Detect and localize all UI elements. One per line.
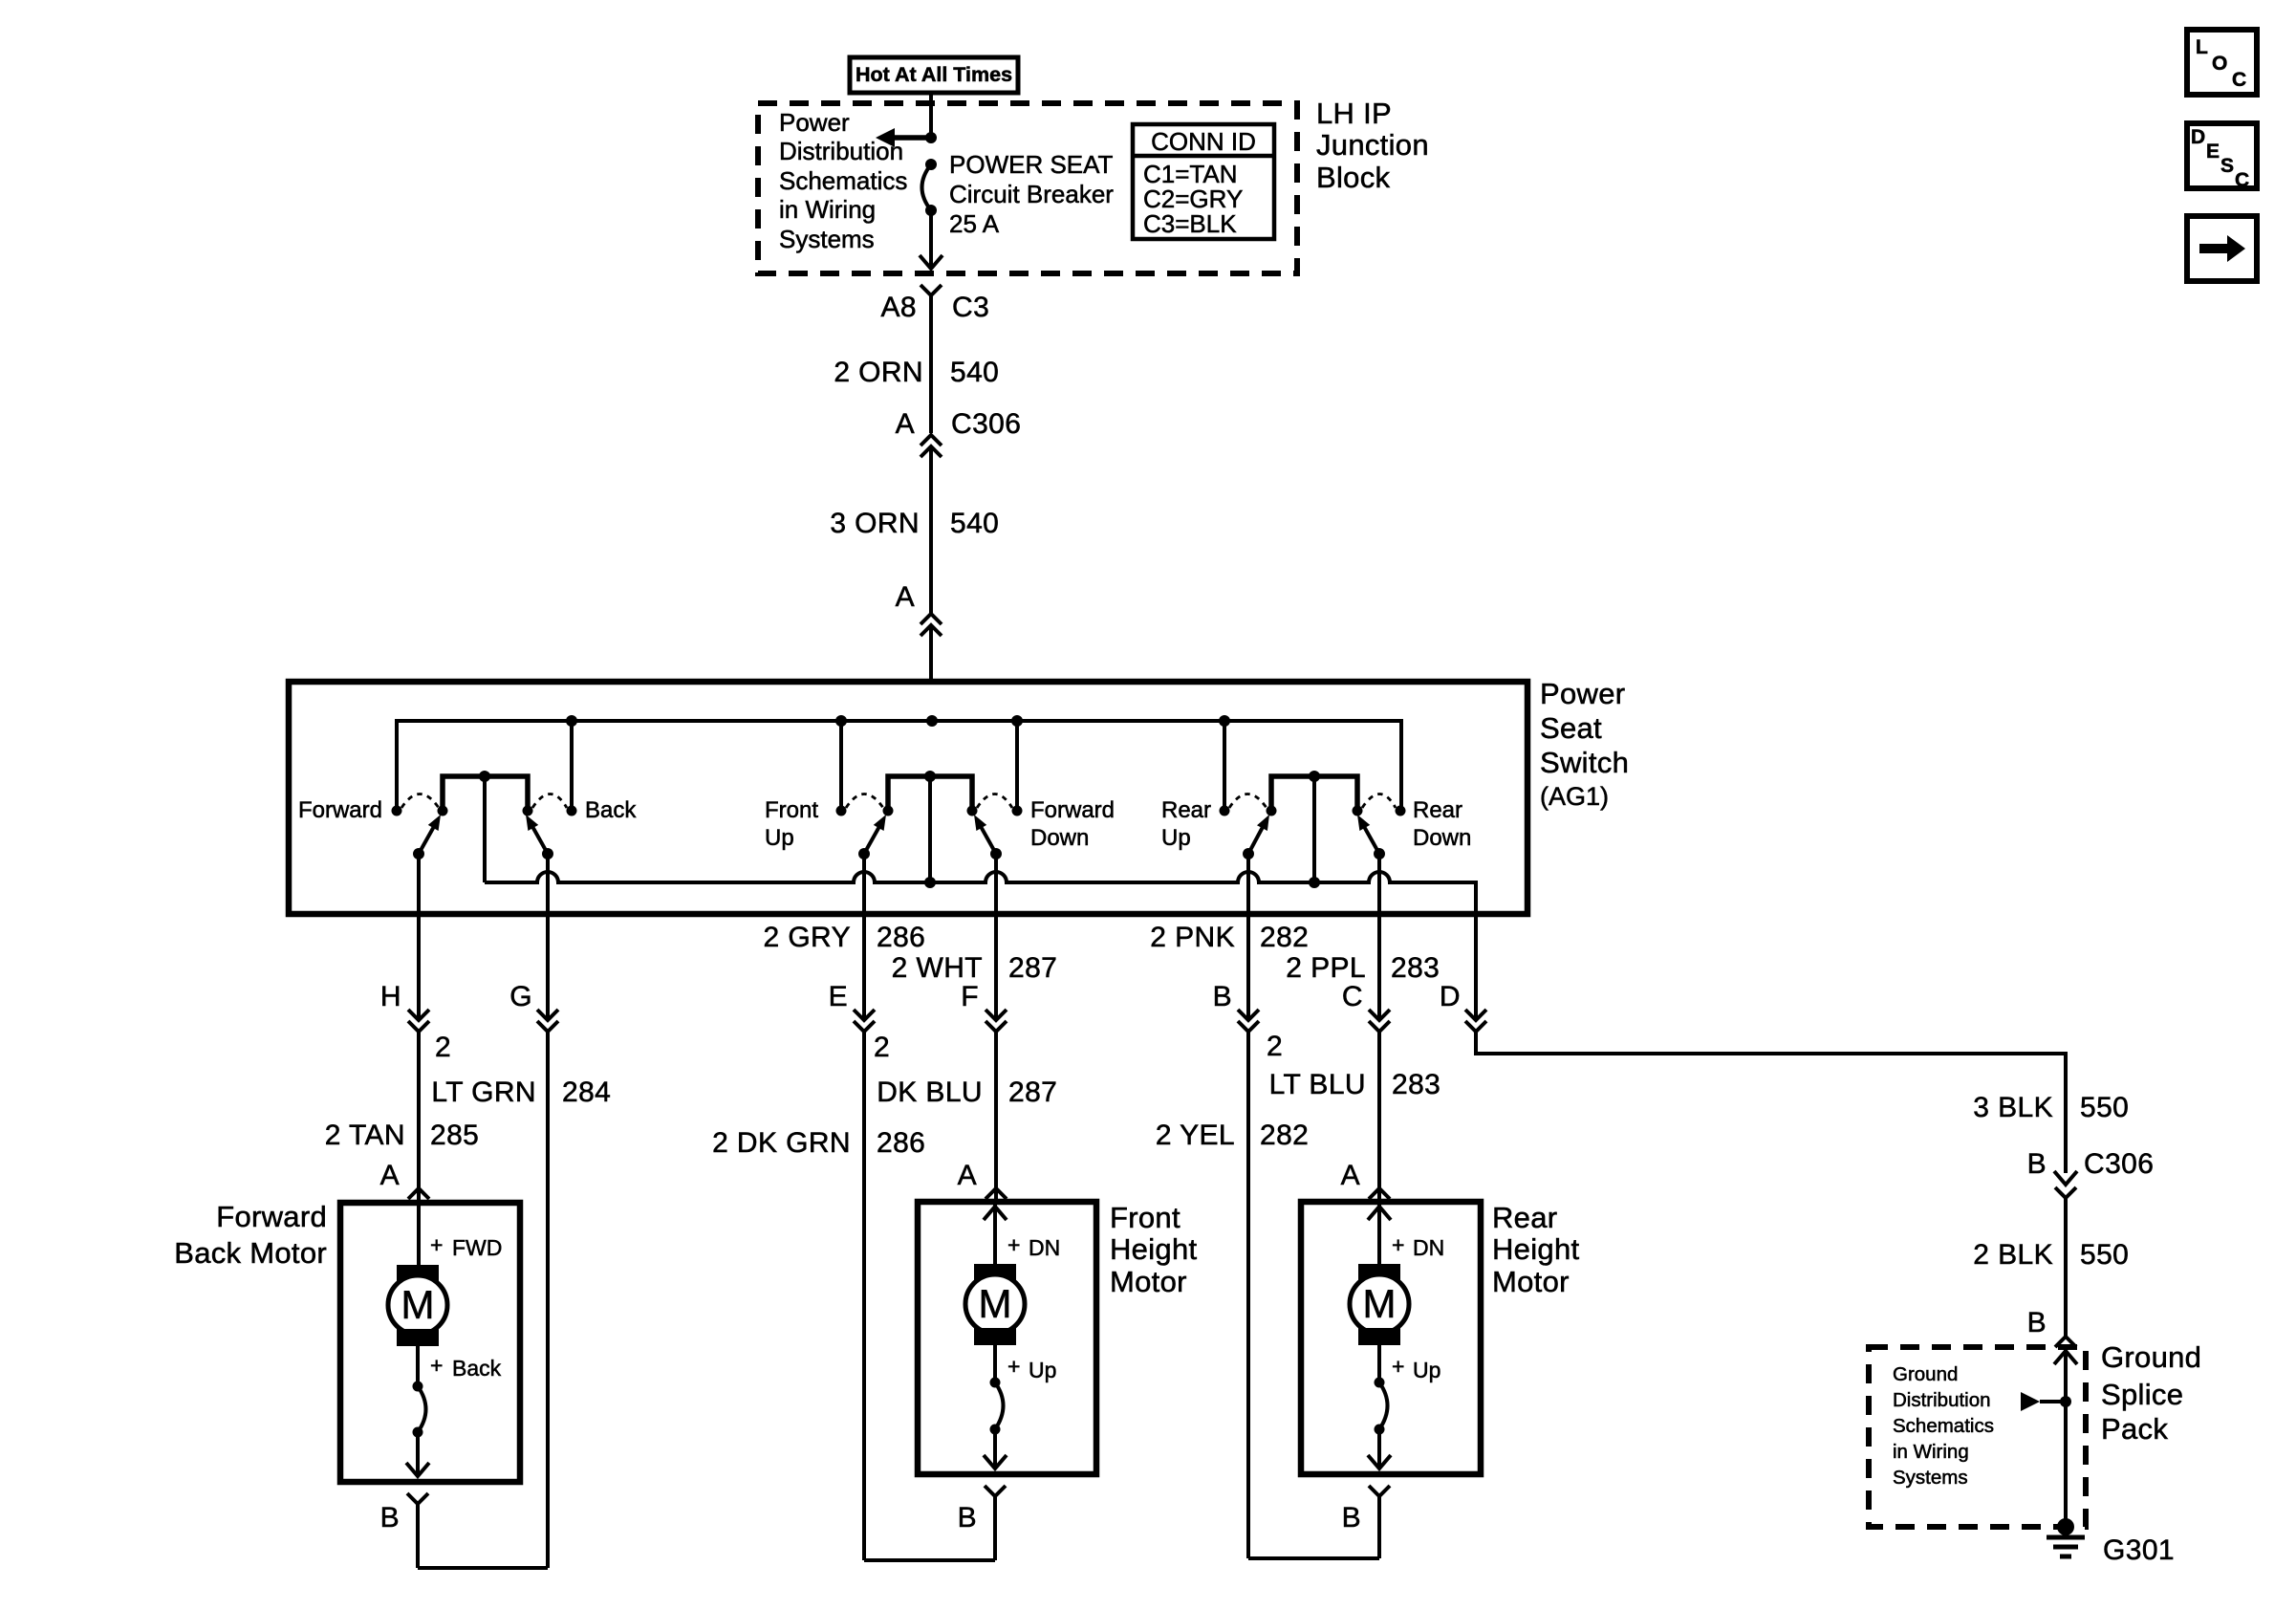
svg-text:3 BLK: 3 BLK	[1973, 1092, 2053, 1123]
svg-text:286: 286	[877, 922, 925, 953]
svg-text:2 YEL: 2 YEL	[1156, 1120, 1235, 1151]
label 2 DK BLU 287	[874, 1032, 1057, 1108]
wire F to Front Height Motor pin A	[994, 1032, 998, 1202]
wire 2 ORN 540	[929, 325, 933, 433]
contact dots group 3	[1220, 806, 1406, 816]
svg-text:D: D	[1440, 981, 1461, 1012]
svg-text:2: 2	[435, 1032, 451, 1063]
wire G down right side of motor	[546, 1032, 550, 1568]
svg-text:285: 285	[430, 1120, 479, 1151]
wire inside splice pack with up arrow	[2054, 1347, 2077, 1527]
svg-text:550: 550	[2080, 1092, 2129, 1123]
corner legend box DESC	[2187, 123, 2257, 191]
wire E down	[862, 1032, 866, 1560]
svg-text:E: E	[829, 981, 848, 1012]
switch group 2 Front Up/Forward Down T-bar	[888, 771, 972, 882]
svg-text:A: A	[380, 1160, 400, 1191]
svg-text:2 GRY: 2 GRY	[764, 922, 852, 953]
label 3 BLK 550	[1973, 1092, 2129, 1123]
label Rear Down	[1413, 797, 1471, 851]
svg-text:Hot At All Times: Hot At All Times	[856, 63, 1012, 86]
label 2 GRY 286	[764, 922, 926, 953]
dashed rocker arcs group 1	[401, 794, 439, 809]
svg-text:Up: Up	[1029, 1358, 1056, 1382]
svg-text:Systems: Systems	[1893, 1467, 1968, 1489]
label 2 PPL 283	[1286, 952, 1440, 984]
svg-text:C306: C306	[951, 408, 1021, 440]
svg-text:Height: Height	[1110, 1232, 1197, 1266]
svg-text:2: 2	[874, 1032, 890, 1063]
wire H to Forward Back Motor pin A	[417, 1032, 421, 1203]
connector caret at ground splice pack	[2055, 1337, 2076, 1347]
actuator arrow Back	[526, 815, 553, 859]
svg-text:+: +	[1392, 1354, 1404, 1379]
label 2 WHT 287	[892, 952, 1058, 984]
svg-text:2 ORN: 2 ORN	[834, 357, 923, 388]
connector C306 pin B (down arrow + chevron)	[2027, 1148, 2155, 1198]
svg-text:O: O	[2212, 53, 2227, 75]
motor M1 Forward Back Motor	[340, 1203, 520, 1482]
label Front Height Motor	[1110, 1201, 1197, 1298]
svg-text:2 PNK: 2 PNK	[1150, 922, 1235, 953]
wire motor1 B to G	[418, 1566, 548, 1570]
note Ground Distribution Schematics in Wiring Systems	[1893, 1363, 1994, 1489]
wire switch pin E	[862, 854, 866, 914]
svg-text:(AG1): (AG1)	[1540, 782, 1609, 811]
wire 2 BLK 550	[2064, 1198, 2068, 1337]
svg-text:Forward: Forward	[216, 1200, 327, 1233]
svg-text:B: B	[380, 1502, 400, 1534]
motor M3 Rear Height Motor	[1301, 1202, 1481, 1474]
svg-text:2 TAN: 2 TAN	[325, 1120, 405, 1151]
svg-text:DN: DN	[1413, 1235, 1444, 1260]
LH IP junction block (dashed)	[758, 103, 1297, 273]
svg-text:283: 283	[1392, 1069, 1440, 1100]
wire D to ground run	[1476, 1032, 2066, 1173]
power seat switch box	[289, 682, 1527, 914]
connector chevrons H	[408, 1010, 429, 1032]
connector chevrons E	[854, 1010, 875, 1032]
svg-text:M: M	[401, 1282, 435, 1327]
svg-text:F: F	[961, 981, 979, 1012]
svg-text:C: C	[2232, 69, 2246, 91]
label 2 DK GRN 286	[712, 1127, 925, 1159]
svg-text:LT GRN: LT GRN	[431, 1077, 536, 1108]
svg-text:Back Motor: Back Motor	[174, 1236, 327, 1270]
svg-text:Motor: Motor	[1110, 1265, 1187, 1298]
connector Y below motor1	[407, 1493, 428, 1568]
wire motor2 B to E	[864, 1558, 995, 1562]
wire switch pin B	[1246, 854, 1250, 914]
svg-text:+: +	[430, 1353, 443, 1378]
svg-text:3 ORN: 3 ORN	[830, 508, 920, 539]
svg-text:287: 287	[1008, 1077, 1057, 1108]
svg-text:550: 550	[2080, 1239, 2129, 1271]
connector chevrons F	[986, 1010, 1007, 1032]
connector chevrons C	[1369, 1010, 1390, 1032]
svg-text:B: B	[1342, 1502, 1361, 1534]
svg-text:+: +	[1007, 1232, 1020, 1257]
svg-text:G: G	[509, 981, 532, 1012]
svg-text:Ground: Ground	[1893, 1363, 1958, 1385]
wire C to Rear Height Motor pin A	[1377, 1032, 1381, 1202]
svg-text:B: B	[958, 1502, 977, 1534]
pin A8 / cavity C3 labels	[881, 292, 990, 323]
svg-text:L: L	[2196, 36, 2208, 58]
node junction dot at power tap	[925, 132, 937, 143]
svg-text:C3=BLK: C3=BLK	[1143, 209, 1237, 238]
ground G301 symbol	[2047, 1518, 2085, 1556]
svg-text:Rear: Rear	[1492, 1201, 1557, 1234]
svg-text:2: 2	[1267, 1031, 1283, 1062]
svg-text:B: B	[2027, 1148, 2047, 1180]
svg-text:Forward: Forward	[298, 797, 382, 823]
svg-text:Up: Up	[765, 825, 794, 851]
svg-text:Power: Power	[1540, 677, 1625, 710]
dashed rocker arcs group 3	[1229, 794, 1267, 809]
svg-text:C306: C306	[2084, 1148, 2154, 1180]
svg-text:2 PPL: 2 PPL	[1286, 952, 1366, 984]
wire switch pin C	[1377, 854, 1381, 914]
svg-text:+: +	[1392, 1232, 1404, 1257]
svg-text:M: M	[1363, 1281, 1397, 1326]
switch return wire to pin D with hops	[485, 872, 1476, 914]
svg-text:282: 282	[1260, 1120, 1309, 1151]
svg-text:Switch: Switch	[1540, 746, 1629, 779]
wire from Hot At All Times into junction block	[929, 93, 933, 138]
actuator arrow Front Up	[858, 815, 886, 859]
svg-text:A: A	[896, 408, 915, 440]
svg-text:540: 540	[950, 357, 999, 388]
svg-text:Junction: Junction	[1316, 128, 1429, 162]
switch feed bus wire	[397, 721, 1401, 811]
svg-text:2 WHT: 2 WHT	[892, 952, 983, 984]
svg-text:Down: Down	[1413, 825, 1471, 851]
wire switch pin F	[994, 854, 998, 914]
wire bus drops to stationary contacts	[572, 721, 1224, 811]
svg-text:Pack: Pack	[2101, 1412, 2168, 1446]
svg-text:25 A: 25 A	[949, 209, 1000, 238]
CONN ID table	[1133, 124, 1274, 239]
wire 3 ORN 540	[929, 446, 933, 682]
svg-text:Splice: Splice	[2101, 1378, 2183, 1411]
actuator arrow Forward	[413, 815, 441, 859]
connector Y below motor3	[1369, 1486, 1390, 1558]
svg-text:C: C	[2235, 169, 2249, 191]
connector chevrons B	[1238, 1010, 1259, 1032]
svg-text:Schematics: Schematics	[1893, 1415, 1994, 1437]
wire tap to power distribution (left arrow)	[876, 128, 931, 147]
svg-text:LT BLU: LT BLU	[1269, 1069, 1366, 1100]
svg-text:C3: C3	[952, 292, 989, 323]
node return wire dots	[924, 877, 936, 888]
wire motor3 B to pin B	[1248, 1556, 1379, 1560]
label POWER SEAT Circuit Breaker 25 A	[949, 150, 1114, 238]
splice tap arrow to ground distribution	[2021, 1392, 2071, 1411]
label 2 ORN 540	[834, 357, 999, 388]
svg-text:H: H	[380, 981, 401, 1012]
label 2 YEL 282	[1156, 1120, 1309, 1151]
svg-text:283: 283	[1391, 952, 1440, 984]
actuator arrow Rear Up	[1243, 815, 1269, 859]
svg-text:LH IP: LH IP	[1316, 97, 1392, 130]
svg-text:Motor: Motor	[1492, 1265, 1570, 1298]
connector caret A motor1	[408, 1188, 429, 1199]
svg-text:Distribution: Distribution	[1893, 1389, 1991, 1411]
label LH IP Junction Block	[1316, 97, 1429, 194]
ground splice pack box (dashed)	[1869, 1347, 2086, 1527]
svg-text:Power: Power	[779, 108, 850, 137]
label Ground Splice Pack	[2101, 1340, 2201, 1446]
contact dots group 1	[392, 806, 577, 816]
label 3 ORN 540	[830, 508, 999, 539]
svg-text:2 BLK: 2 BLK	[1973, 1239, 2053, 1271]
svg-text:Seat: Seat	[1540, 711, 1602, 745]
svg-text:Systems: Systems	[779, 225, 875, 253]
svg-text:+: +	[1007, 1354, 1020, 1379]
corner legend box right-arrow	[2187, 216, 2257, 281]
svg-text:2 DK GRN: 2 DK GRN	[712, 1127, 851, 1159]
label Power Seat Switch (AG1)	[1540, 677, 1629, 811]
svg-text:Front: Front	[1110, 1201, 1180, 1234]
node bus dots	[566, 715, 577, 727]
svg-text:G301: G301	[2103, 1534, 2175, 1566]
connector pin A at switch (double chevron)	[896, 581, 942, 636]
wire switch pin G	[546, 854, 550, 914]
svg-text:540: 540	[950, 508, 999, 539]
svg-text:FWD: FWD	[452, 1235, 502, 1260]
svg-text:Forward: Forward	[1030, 797, 1115, 823]
svg-text:Rear: Rear	[1413, 797, 1462, 823]
svg-text:282: 282	[1260, 922, 1309, 953]
svg-text:Up: Up	[1413, 1358, 1440, 1382]
label 2 LT BLU 283	[1267, 1031, 1440, 1100]
wire junction dot to breaker	[925, 159, 937, 170]
svg-text:D: D	[2191, 126, 2205, 148]
switch group 1 Forward/Back T-bar	[443, 771, 528, 882]
label Rear Height Motor	[1492, 1201, 1579, 1298]
svg-text:Front: Front	[765, 797, 818, 823]
label Forward Back Motor	[174, 1200, 327, 1270]
connector A8/C3 (Y symbol)	[921, 285, 942, 325]
svg-text:B: B	[2027, 1307, 2047, 1338]
svg-text:Rear: Rear	[1161, 797, 1211, 823]
svg-text:+: +	[430, 1232, 443, 1257]
actuator arrow Forward Down	[974, 815, 1002, 859]
svg-text:Circuit Breaker: Circuit Breaker	[949, 180, 1114, 208]
wires pins to inline connectors	[419, 914, 1476, 1019]
svg-text:Height: Height	[1492, 1232, 1579, 1266]
label 2 PNK 282	[1150, 922, 1309, 953]
svg-text:E: E	[2206, 141, 2220, 163]
dashed rocker arcs group 2	[846, 794, 883, 809]
note Power Distribution Schematics in Wiring Systems	[779, 108, 907, 253]
svg-text:in Wiring: in Wiring	[779, 195, 876, 224]
wire B down	[1246, 1032, 1250, 1558]
svg-text:DN: DN	[1029, 1235, 1060, 1260]
svg-text:C: C	[1342, 981, 1363, 1012]
svg-text:CONN ID: CONN ID	[1151, 127, 1256, 156]
circuit breaker POWER SEAT 25 A	[922, 164, 938, 216]
svg-text:S: S	[2220, 155, 2234, 177]
connector caret A motor3	[1369, 1188, 1390, 1199]
connector caret A motor2	[986, 1188, 1007, 1199]
label Forward Down	[1030, 797, 1115, 851]
svg-text:DK BLU: DK BLU	[877, 1077, 983, 1108]
connector C306 pin A (double chevron)	[896, 408, 1022, 457]
svg-text:Back: Back	[585, 797, 637, 823]
corner legend box LOC	[2187, 30, 2257, 95]
svg-text:Ground: Ground	[2101, 1340, 2201, 1374]
contact dots group 2	[836, 806, 1023, 816]
svg-text:M: M	[979, 1281, 1012, 1326]
svg-text:in Wiring: in Wiring	[1893, 1441, 1969, 1463]
svg-text:Block: Block	[1316, 161, 1391, 194]
actuator arrow Rear Down	[1357, 815, 1385, 859]
connector chevrons G	[537, 1010, 558, 1032]
svg-text:286: 286	[877, 1127, 925, 1159]
svg-text:287: 287	[1008, 952, 1057, 984]
svg-text:A: A	[896, 581, 915, 613]
svg-text:284: 284	[562, 1077, 611, 1108]
connector chevrons D	[1465, 1010, 1486, 1032]
wire breaker to block edge with arrow	[920, 210, 942, 269]
svg-text:Schematics: Schematics	[779, 166, 907, 195]
label 2 LT GRN 284	[431, 1032, 611, 1108]
svg-text:POWER SEAT: POWER SEAT	[949, 150, 1114, 179]
connector Y below motor2	[985, 1486, 1006, 1560]
motor M2 Front Height Motor	[918, 1202, 1096, 1474]
svg-text:A: A	[1341, 1160, 1360, 1191]
label 2 BLK 550	[1973, 1239, 2129, 1271]
svg-text:A8: A8	[881, 292, 918, 323]
svg-text:B: B	[1213, 981, 1232, 1012]
label Front Up	[765, 797, 818, 851]
label Rear Up	[1161, 797, 1211, 851]
label Hot At All Times	[850, 57, 1018, 93]
svg-text:Down: Down	[1030, 825, 1089, 851]
label 2 TAN 285	[325, 1120, 480, 1151]
switch group 3 Rear Up/Rear Down T-bar	[1271, 771, 1357, 882]
wire switch pin H	[417, 854, 421, 914]
svg-text:Up: Up	[1161, 825, 1191, 851]
svg-text:A: A	[958, 1160, 977, 1191]
svg-text:Back: Back	[452, 1356, 502, 1381]
